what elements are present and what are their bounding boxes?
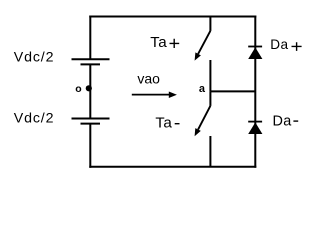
battery B2 short plate bbox=[81, 123, 101, 125]
svg-text:a: a bbox=[199, 83, 206, 95]
switch Ta- lower terminal bbox=[209, 136, 211, 167]
vao arrow head bbox=[169, 92, 177, 99]
svg-text:Vdc/2: Vdc/2 bbox=[14, 110, 55, 126]
battery B1 short plate bbox=[81, 63, 101, 65]
wire bottom bus bbox=[89, 166, 256, 168]
wire left vertical lower (battery 2 to bottom bus) bbox=[89, 124, 91, 168]
wire top bus bbox=[89, 16, 256, 18]
label Ta+ plus sign bbox=[170, 39, 180, 48]
switch Ta- blade arrowhead bbox=[195, 128, 201, 136]
svg-text:Ta: Ta bbox=[150, 34, 167, 51]
wire left vertical upper (top bus to battery 1) bbox=[89, 16, 91, 60]
battery B2 long plate bbox=[72, 118, 110, 120]
diode Da+ triangle bbox=[248, 47, 262, 59]
svg-text:Ta: Ta bbox=[155, 115, 172, 132]
switch Ta+ upper stub bbox=[209, 16, 211, 31]
switch Ta+ blade bbox=[198, 31, 210, 54]
wire left vertical middle (battery 1 to battery 2) bbox=[89, 64, 91, 118]
diode Da+ cathode bar bbox=[248, 46, 262, 48]
label Ta- minus sign bbox=[175, 123, 180, 125]
wire node a to diode leg bbox=[210, 90, 255, 92]
label Da- minus sign bbox=[293, 120, 298, 122]
svg-text:Da: Da bbox=[273, 114, 292, 130]
switch Ta- blade bbox=[198, 106, 210, 130]
node o junction dot bbox=[86, 85, 92, 91]
switch Ta+ lower terminal bbox=[209, 60, 211, 91]
wire right diode leg bbox=[254, 16, 256, 168]
svg-text:Vdc/2: Vdc/2 bbox=[14, 49, 55, 65]
diode Da- triangle bbox=[248, 122, 262, 134]
svg-text:o: o bbox=[75, 83, 81, 95]
svg-text:Da: Da bbox=[270, 37, 288, 52]
switch Ta+ blade arrowhead bbox=[195, 52, 201, 60]
diode Da- cathode bar bbox=[248, 121, 262, 123]
svg-text:vao: vao bbox=[137, 71, 160, 87]
battery B1 long plate bbox=[72, 58, 110, 60]
label Da+ plus sign bbox=[292, 42, 302, 51]
vao arrow shaft bbox=[132, 94, 170, 96]
switch Ta- upper stub bbox=[209, 91, 211, 106]
